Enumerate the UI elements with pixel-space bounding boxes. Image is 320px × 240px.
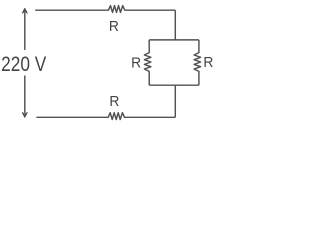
svg-text:R: R [109, 19, 119, 35]
svg-text:R: R [203, 55, 213, 71]
svg-text:R: R [131, 55, 141, 71]
svg-text:R: R [109, 94, 119, 110]
svg-text:220 V: 220 V [1, 52, 47, 76]
